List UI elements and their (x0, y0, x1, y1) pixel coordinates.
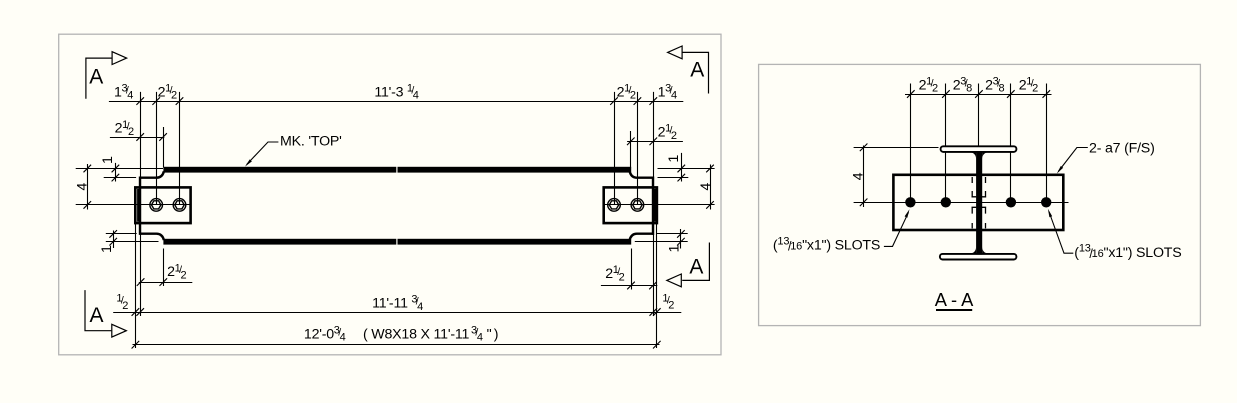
extension line beam end left (140, 92, 142, 316)
extension line cope bottom right (657, 233, 688, 235)
leader slots left (884, 212, 909, 246)
beam end edge left (139, 177, 141, 235)
connection plate 2-a7 (893, 175, 1063, 230)
end plate right (604, 187, 657, 223)
section dim extension bolt c (1010, 84, 1012, 203)
bolt left 2 (173, 199, 186, 212)
svg-text:21/2: 21/2 (1019, 75, 1038, 94)
section dimension 4 (863, 146, 865, 208)
svg-text:4: 4 (851, 172, 867, 180)
extension line bolt axis left (76, 204, 191, 206)
beam cope line top right (630, 171, 654, 177)
section bolt d (1041, 197, 1051, 207)
extension line bolt axis right (604, 204, 715, 206)
section dim extension web centerline (978, 84, 980, 148)
section dim extension bolt b (945, 84, 947, 203)
svg-text:": " (487, 326, 492, 342)
beam bottom flange left segment (163, 239, 396, 245)
extension line cope top right (658, 177, 689, 179)
beam cope line bottom right (630, 234, 654, 240)
extension line plate edge left (135, 224, 137, 349)
section dimension line top (905, 94, 1052, 96)
section bolt c (1006, 197, 1016, 207)
svg-text:A: A (89, 304, 103, 327)
dimension 1 bottom right (680, 229, 682, 249)
svg-text:21/2: 21/2 (658, 123, 677, 142)
left panel border (59, 34, 721, 355)
svg-text:( W8X18 X 11'-11: ( W8X18 X 11'-11 (363, 326, 470, 342)
leader MK. TOP (247, 142, 279, 165)
dimension line cope left 2-1/2 (110, 137, 164, 139)
svg-text:21/2: 21/2 (605, 264, 624, 283)
svg-text:A: A (89, 65, 103, 88)
extension line flange top level left (76, 168, 163, 170)
extension line bolt 2 left (179, 92, 181, 205)
beam bottom flange right segment (398, 239, 632, 245)
right panel border (759, 64, 1201, 325)
beam end thick bar left (137, 189, 140, 222)
extension line bolt 1 left (156, 92, 158, 205)
svg-text:3/4: 3/4 (334, 324, 346, 343)
svg-text:21/2: 21/2 (115, 119, 134, 138)
svg-text:MK. 'TOP': MK. 'TOP' (280, 133, 342, 149)
svg-text:2- a7 (F/S): 2- a7 (F/S) (1089, 141, 1155, 157)
extension line flange start bottom left (163, 249, 165, 287)
svg-text:3/4: 3/4 (471, 324, 483, 343)
extension line bolt 3 right (637, 92, 639, 205)
svg-text:11'-3 1/4: 11'-3 1/4 (374, 82, 418, 101)
beam top flange right segment (398, 167, 632, 173)
dimension 1 bottom left (113, 231, 115, 249)
beam end edge right (652, 177, 654, 235)
svg-text:21/2: 21/2 (617, 82, 636, 101)
dimension 1 top left (115, 163, 117, 182)
svg-text:13/4: 13/4 (114, 82, 133, 101)
beam cope line bottom left (140, 234, 164, 240)
svg-text:13/4: 13/4 (658, 82, 677, 101)
section extension flange top (854, 147, 939, 149)
hidden slot edges dashed (972, 177, 987, 228)
extension line cope bottom left (106, 233, 137, 235)
dimension line 11'-11 3/4 row (113, 312, 681, 314)
title underline (936, 309, 972, 311)
svg-text:23/8: 23/8 (953, 75, 972, 94)
svg-text:1: 1 (100, 156, 116, 164)
extension line beam end right (653, 92, 655, 316)
dimension 4 right (710, 165, 712, 210)
svg-text:23/8: 23/8 (985, 75, 1004, 94)
svg-text:1: 1 (99, 245, 115, 253)
W8X18 bottom flange (940, 254, 1017, 260)
beam cope line top left (140, 171, 164, 177)
section marker A bottom-right (667, 243, 710, 287)
section bolt axis centerline (854, 202, 1069, 204)
section marker A top-left (86, 52, 127, 99)
extension line flange bottom level left (106, 241, 159, 243)
svg-text:(13/16"x1") SLOTS: (13/16"x1") SLOTS (773, 235, 880, 253)
web fillets (970, 152, 989, 253)
beam top flange left segment (163, 167, 396, 173)
svg-text:A: A (689, 255, 703, 278)
svg-text:1: 1 (666, 245, 682, 253)
svg-text:11'-11 3/4: 11'-11 3/4 (372, 294, 423, 313)
svg-text:): ) (494, 326, 499, 342)
dimension line 12'-0 3/4 overall (133, 344, 660, 346)
svg-text:1/2: 1/2 (116, 293, 128, 312)
extension line plate edge right (656, 224, 658, 349)
dimension line bottom 2-1/2 left (139, 282, 193, 284)
W8X18 top flange (941, 146, 1017, 152)
svg-text:12'-0: 12'-0 (304, 326, 334, 342)
svg-text:4: 4 (74, 183, 90, 191)
bolt left 1 (150, 199, 163, 212)
extension line flange bottom level right (635, 241, 688, 243)
extension line flange start top left (163, 127, 165, 168)
W8X18 web (976, 151, 982, 254)
end plate left (135, 187, 190, 223)
dimension 1 top right (681, 153, 683, 182)
section dim extension bolt a (910, 84, 912, 203)
svg-text:4: 4 (698, 183, 714, 191)
section bolt a (905, 197, 915, 207)
bolt right 1 (608, 199, 621, 212)
extension line flange top level right (658, 168, 715, 170)
extension line cope top left (104, 177, 136, 179)
svg-text:A: A (690, 59, 704, 82)
section marker A bottom-left (85, 290, 126, 337)
svg-text:A - A: A - A (935, 289, 974, 310)
extension line flange end bottom right (631, 249, 633, 290)
extension line bolt 4 right (614, 92, 616, 205)
extension line flange end top right (630, 131, 632, 168)
beam end thick bar right (653, 189, 656, 222)
section dim extension bolt d (1046, 84, 1048, 203)
leader 2- a7 (1058, 148, 1088, 172)
dimension line top row (109, 101, 683, 103)
svg-text:21/2: 21/2 (167, 262, 186, 281)
svg-text:(13/16"x1") SLOTS: (13/16"x1") SLOTS (1074, 243, 1181, 261)
bolt right 2 (631, 199, 644, 212)
section bolt b (941, 197, 951, 207)
section marker A top-right (668, 46, 709, 94)
svg-text:21/2: 21/2 (158, 82, 177, 101)
dimension 4 left (87, 164, 89, 210)
svg-text:1/2: 1/2 (662, 292, 674, 311)
svg-text:1: 1 (666, 155, 682, 163)
leader slots right (1049, 212, 1073, 254)
dimension line cope right 2-1/2 (627, 141, 683, 143)
dimension line bottom 2-1/2 right (601, 285, 657, 287)
svg-text:21/2: 21/2 (919, 75, 938, 94)
